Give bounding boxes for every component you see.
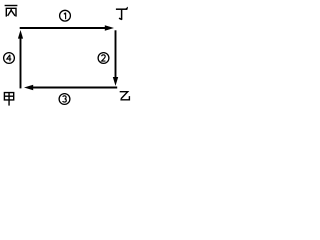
- node 乙 (bottom-right label): [120, 92, 130, 100]
- wire top edge 丙→丁: [20, 27, 106, 29]
- node 丁 (top-right label): [116, 9, 128, 20]
- label ② circle: [98, 53, 109, 64]
- arrowhead ② down: [113, 77, 118, 86]
- node 甲 (bottom-left label): [4, 93, 13, 106]
- wire right edge 丁→乙: [115, 30, 117, 78]
- digit 4: [7, 55, 12, 62]
- node 丙 (top-left label): [5, 6, 18, 17]
- arrowhead ③ left: [24, 85, 33, 90]
- label ④ circle: [4, 53, 15, 64]
- label ① circle: [60, 10, 71, 21]
- digit 3: [63, 96, 67, 102]
- arrowhead ④ up: [18, 30, 23, 39]
- digit 2: [102, 55, 106, 61]
- label ③ circle: [59, 94, 70, 105]
- arrowhead ① right: [105, 25, 114, 30]
- digit 1: [64, 13, 66, 20]
- wire left edge 甲→丙: [20, 38, 22, 88]
- serif tick of 丁: [125, 7, 128, 9]
- wire bottom edge 乙→甲: [33, 87, 118, 89]
